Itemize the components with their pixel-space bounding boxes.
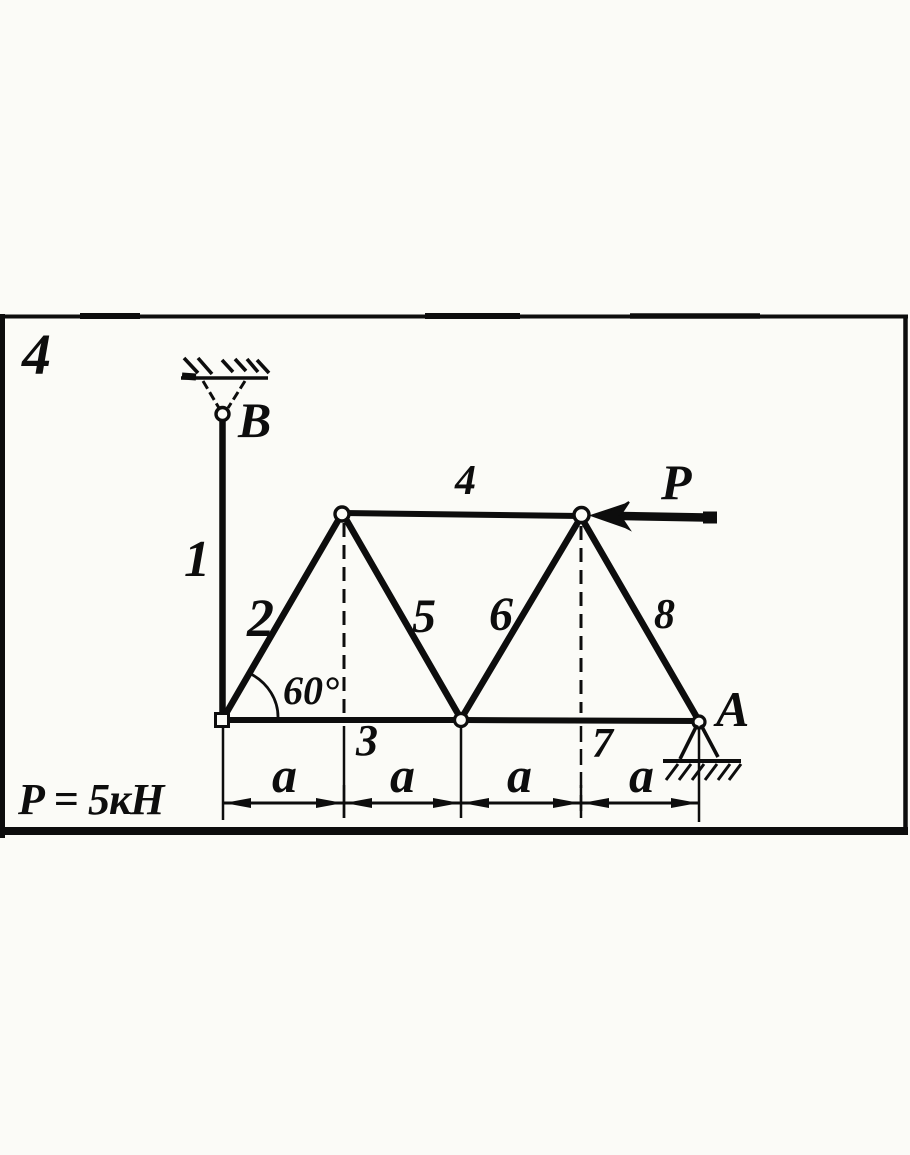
- construction line under node T1: [343, 523, 346, 818]
- svg-text:4: 4: [21, 322, 51, 387]
- member 6: [461, 517, 581, 719]
- node B: [216, 408, 229, 421]
- svg-text:a: a: [629, 747, 654, 803]
- extension line through support A: [698, 727, 701, 822]
- svg-text:5: 5: [412, 590, 436, 643]
- pin hanger link at B: [203, 381, 245, 408]
- pin support legs at A: [680, 725, 718, 759]
- svg-text:8: 8: [654, 592, 675, 638]
- node L0 (bottom left, square pin): [216, 714, 229, 727]
- svg-text:60°: 60°: [283, 668, 339, 713]
- border frame (drawn, unlabeled content starts after): [0, 315, 908, 319]
- dimension line segment a2 with arrows: [344, 798, 461, 808]
- ground hatching at A: [666, 764, 741, 780]
- svg-text:6: 6: [489, 588, 513, 641]
- svg-text:2: 2: [246, 588, 274, 648]
- svg-text:7: 7: [592, 721, 615, 767]
- svg-text:4: 4: [454, 458, 476, 504]
- svg-text:B: B: [237, 392, 271, 448]
- extension line below node L0: [222, 727, 225, 820]
- member 7 (bottom chord, right half): [462, 720, 699, 721]
- svg-text:A: A: [713, 681, 749, 737]
- svg-text:a: a: [390, 747, 415, 803]
- svg-text:a: a: [272, 747, 297, 803]
- member 4 (top chord): [343, 513, 581, 516]
- svg-text:1: 1: [184, 531, 210, 588]
- dimension line segment a3 with arrows: [461, 798, 581, 808]
- member 3 (bottom chord, left half): [222, 717, 462, 723]
- angle arc 60 degrees: [251, 674, 278, 718]
- tick at x=344 on dimension line: [343, 785, 346, 818]
- dimension line segment a4 with arrows: [581, 798, 699, 808]
- member 8: [581, 517, 699, 721]
- member 2: [224, 512, 343, 717]
- ceiling hatching at B: [184, 358, 269, 374]
- member 1: [219, 420, 226, 714]
- tick at x=581 on dimension line: [580, 785, 583, 818]
- svg-text:a: a: [507, 747, 532, 803]
- ceiling line of fixed support at B: [181, 376, 268, 378]
- dimension line segment a1 with arrows: [223, 798, 344, 808]
- svg-text:P: P: [660, 454, 692, 510]
- member 5: [343, 514, 461, 719]
- force P arrow: [592, 502, 717, 529]
- ground line at A: [663, 759, 741, 763]
- svg-text:3: 3: [355, 716, 378, 765]
- node T1 (top left): [335, 507, 349, 521]
- svg-text:P = 5кН: P = 5кН: [17, 775, 166, 824]
- node T2 (top right): [574, 508, 589, 523]
- node A: [693, 716, 705, 728]
- construction line under node T2: [580, 526, 583, 814]
- node M (bottom middle): [455, 714, 468, 727]
- extension line below node M: [460, 727, 463, 818]
